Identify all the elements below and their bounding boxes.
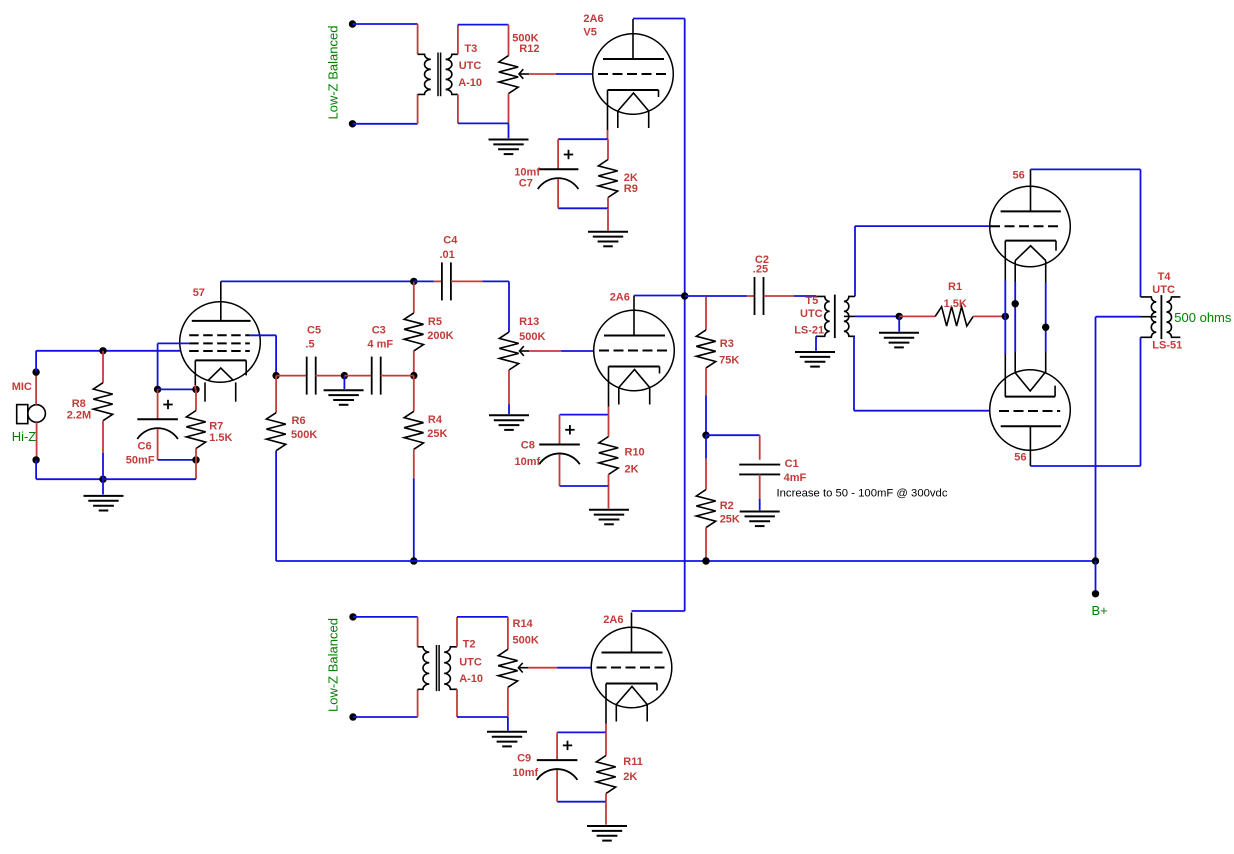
tube V5 2A6	[593, 34, 674, 115]
wire	[102, 453, 104, 479]
wire	[508, 25, 510, 56]
wire	[705, 395, 707, 435]
wire	[417, 94, 419, 123]
wire	[507, 617, 509, 649]
wire	[815, 336, 817, 351]
capacitor C8 10mf electrolytic	[539, 444, 580, 446]
tube 57 pentode	[180, 302, 261, 383]
wire R14 wiper	[529, 667, 558, 669]
transformer T5 (UTC LS-21)	[816, 296, 830, 336]
wire	[855, 225, 990, 227]
ground (below R13)	[489, 414, 529, 416]
capacitor C6 50mF electrolytic	[137, 418, 178, 420]
tube 56 (lower, inverted)	[990, 370, 1071, 451]
wire cathode link	[1004, 241, 1006, 280]
wire T5 to lower 56 grid	[853, 336, 855, 410]
svg-text:500K: 500K	[513, 635, 539, 647]
wire	[35, 460, 37, 479]
wire	[275, 451, 277, 561]
wire	[557, 139, 559, 169]
wire	[556, 732, 558, 760]
tube 56 (upper)	[990, 186, 1071, 267]
junction	[32, 456, 39, 463]
svg-text:LS-51: LS-51	[1152, 339, 1182, 351]
resistor R9 2K	[598, 160, 617, 198]
wire	[557, 801, 606, 803]
wire	[607, 208, 609, 230]
wire plate bus vertical	[684, 19, 686, 612]
wire	[608, 407, 610, 415]
wire mic to grid	[36, 350, 180, 352]
svg-text:57: 57	[193, 287, 205, 299]
wire	[854, 410, 990, 412]
svg-text:R13: R13	[519, 316, 539, 328]
wire	[36, 478, 103, 480]
svg-text:Hi-Z: Hi-Z	[12, 429, 37, 444]
junction	[341, 372, 348, 379]
wire T5 center tap	[855, 315, 899, 317]
svg-text:T5: T5	[805, 295, 818, 307]
tube 2A6 (bottom stage)	[591, 627, 672, 708]
wire	[705, 528, 707, 561]
junction on B+ bus	[1092, 557, 1099, 564]
wire	[561, 350, 594, 352]
svg-text:2K: 2K	[625, 464, 639, 476]
wire	[195, 449, 197, 460]
potentiometer R12 500K	[499, 56, 518, 94]
wire	[457, 616, 508, 618]
wire	[633, 18, 685, 20]
wire	[764, 295, 794, 297]
svg-text:25K: 25K	[720, 514, 740, 526]
svg-text:.5: .5	[305, 339, 314, 351]
wire	[705, 459, 707, 490]
wire	[157, 429, 159, 460]
svg-text:56: 56	[1013, 170, 1025, 182]
svg-text:1.5K: 1.5K	[944, 298, 967, 310]
wire	[194, 385, 196, 389]
wire	[605, 794, 607, 802]
svg-text:R10: R10	[625, 447, 645, 459]
wire	[275, 376, 277, 413]
svg-text:500K: 500K	[519, 331, 545, 343]
wire	[157, 343, 159, 389]
ground (below R9)	[588, 231, 628, 233]
svg-text:T4: T4	[1158, 271, 1172, 283]
wire	[607, 130, 609, 139]
junction on B+ bus	[702, 557, 709, 564]
svg-text:R7: R7	[209, 421, 223, 433]
wire	[413, 376, 415, 412]
svg-text:500 ohms: 500 ohms	[1174, 310, 1232, 325]
wire	[557, 179, 559, 208]
capacitor C1 4mF	[739, 464, 780, 466]
svg-text:200K: 200K	[427, 330, 453, 342]
wire	[414, 280, 434, 282]
wire	[973, 315, 1005, 317]
wire	[898, 316, 900, 331]
svg-text:2A6: 2A6	[610, 291, 630, 303]
wire	[456, 689, 458, 717]
wire	[560, 485, 609, 487]
wire B+ bus	[276, 560, 1095, 562]
svg-text:R14: R14	[513, 618, 534, 630]
wire	[794, 295, 816, 297]
wire	[705, 296, 707, 330]
wire	[685, 295, 706, 297]
junction center tap	[896, 313, 903, 320]
svg-text:10mf: 10mf	[515, 456, 541, 468]
resistor R10 2K	[599, 437, 618, 475]
wire	[508, 404, 510, 414]
wire	[158, 388, 196, 390]
svg-text:R2: R2	[720, 500, 734, 512]
node B+ terminal	[1092, 590, 1099, 597]
wire	[457, 716, 508, 718]
wire	[607, 139, 609, 159]
potentiometer R14 500K	[498, 649, 517, 687]
svg-text:R6: R6	[292, 415, 306, 427]
wire	[557, 731, 606, 733]
resistor R8 2.2M	[93, 383, 112, 421]
wire	[559, 454, 561, 486]
wire	[747, 295, 754, 297]
wire R13 wiper	[530, 350, 562, 352]
wire	[102, 351, 104, 383]
wire	[275, 335, 277, 375]
wire	[103, 478, 196, 480]
wire	[556, 770, 558, 802]
wire	[1140, 337, 1142, 466]
wire	[35, 372, 37, 405]
svg-text:A-10: A-10	[459, 673, 483, 685]
wire	[35, 351, 37, 372]
wire	[458, 24, 509, 26]
svg-text:.01: .01	[440, 249, 455, 261]
ground (below R10)	[589, 509, 629, 511]
wire	[158, 459, 196, 461]
svg-text:R5: R5	[428, 316, 442, 328]
wire heater link (left)	[1014, 261, 1016, 283]
wire	[605, 732, 607, 755]
ground (T5 primary)	[795, 351, 835, 353]
svg-text:C9: C9	[517, 753, 531, 765]
resistor R7 1.5K	[186, 411, 205, 449]
junction decoupling node	[702, 432, 709, 439]
wire	[507, 687, 509, 717]
wire	[508, 94, 510, 124]
wire	[417, 617, 419, 647]
wire	[1095, 317, 1097, 561]
wire	[157, 389, 159, 419]
svg-text:MIC: MIC	[12, 381, 32, 393]
wire	[353, 716, 418, 718]
svg-text:V5: V5	[583, 26, 596, 38]
wire	[344, 375, 371, 377]
wire	[605, 802, 607, 825]
wire	[706, 434, 760, 436]
wire	[559, 415, 561, 445]
wire 57 suppressor to cathode	[158, 342, 190, 344]
resistor R3 75K	[696, 330, 715, 368]
svg-text:75K: 75K	[719, 355, 739, 367]
svg-text:R4: R4	[428, 414, 443, 426]
junction	[32, 368, 39, 375]
junction cathode node	[1002, 313, 1009, 320]
wire	[634, 295, 685, 297]
wire upper 56 plate to T4	[1031, 168, 1141, 170]
junction cathode node	[192, 386, 199, 393]
svg-text:R1: R1	[948, 281, 962, 293]
svg-text:4 mF: 4 mF	[367, 339, 393, 351]
wire	[413, 479, 415, 562]
wire	[195, 460, 197, 479]
svg-text:2.2M: 2.2M	[67, 410, 91, 422]
junction heater	[1042, 324, 1049, 331]
wire 57 screen grid to C5 node	[250, 334, 276, 336]
wire	[413, 449, 415, 478]
wire	[434, 280, 442, 282]
svg-text:C1: C1	[785, 458, 799, 470]
svg-text:R8: R8	[72, 398, 86, 410]
wire	[508, 370, 510, 404]
wire	[1095, 561, 1097, 591]
ground (between C5 and C3)	[324, 389, 364, 391]
ground (below R12)	[489, 139, 529, 141]
wire	[195, 389, 197, 410]
svg-text:R12: R12	[519, 43, 539, 55]
svg-text:C6: C6	[138, 440, 152, 452]
capacitor C9 10mf electrolytic	[537, 759, 578, 761]
wire lower 56 plate to T4	[1030, 465, 1140, 467]
input terminal dot (top channel, lower)	[349, 120, 356, 127]
svg-text:2K: 2K	[624, 172, 638, 184]
svg-text:2A6: 2A6	[583, 13, 603, 25]
wire	[353, 616, 418, 618]
svg-text:C8: C8	[521, 440, 535, 452]
wire	[456, 617, 458, 647]
wire	[36, 422, 38, 460]
wire	[457, 25, 459, 55]
svg-text:2K: 2K	[623, 771, 637, 783]
wire	[315, 375, 344, 377]
input terminal dot (top channel, upper)	[349, 20, 356, 27]
svg-text:T2: T2	[463, 639, 476, 651]
svg-text:C7: C7	[519, 177, 533, 189]
junction	[192, 456, 199, 463]
transformer T3 (UTC A-10)	[418, 54, 431, 94]
wire	[558, 207, 608, 209]
svg-text:.25: .25	[753, 263, 768, 275]
input terminal dot (bottom channel, upper)	[349, 613, 356, 620]
wire	[705, 368, 707, 395]
wire 57 plate to R5/C4 node	[221, 280, 414, 282]
junction	[410, 372, 417, 379]
wire	[458, 122, 509, 124]
wire	[457, 94, 459, 123]
resistor R11 2K	[596, 756, 615, 794]
svg-text:50mF: 50mF	[126, 454, 155, 466]
transformer T4 (UTC LS-51)	[1141, 297, 1157, 337]
resistor R5 200K	[404, 313, 423, 351]
wire	[705, 435, 707, 459]
wire	[632, 610, 685, 612]
wire heater link (right)	[1045, 261, 1047, 283]
svg-text:C4: C4	[443, 235, 458, 247]
wire	[605, 724, 607, 733]
junction	[154, 386, 161, 393]
junction mixing node	[681, 292, 688, 299]
svg-text:UTC: UTC	[459, 60, 482, 72]
wire	[353, 23, 418, 25]
wire	[759, 474, 761, 499]
svg-text:10mf: 10mf	[513, 767, 539, 779]
wire	[557, 667, 592, 669]
wire	[560, 414, 609, 416]
svg-text:UTC: UTC	[800, 308, 823, 320]
wire	[276, 375, 307, 377]
wire	[413, 281, 415, 313]
wire	[508, 281, 510, 332]
capacitor C7 10mf electrolytic	[538, 168, 579, 170]
wire	[508, 123, 510, 138]
svg-text:500K: 500K	[291, 429, 317, 441]
transformer T2 (UTC A-10)	[418, 647, 430, 690]
junction plate node	[410, 278, 417, 285]
svg-text:C5: C5	[307, 324, 321, 336]
svg-text:T3: T3	[464, 43, 477, 55]
junction heater	[1012, 300, 1019, 307]
svg-text:56: 56	[1014, 451, 1026, 463]
wire	[417, 24, 419, 54]
wire	[607, 198, 609, 209]
ground (center tap)	[879, 332, 919, 334]
wire	[102, 479, 104, 494]
ground (below R14)	[487, 731, 527, 733]
wire	[507, 717, 509, 731]
svg-text:25K: 25K	[427, 428, 447, 440]
svg-text:2A6: 2A6	[603, 614, 623, 626]
ground (input common)	[84, 495, 124, 497]
wire	[343, 376, 345, 389]
wire	[353, 123, 418, 125]
resistor R2 25K	[696, 490, 715, 528]
svg-text:4mF: 4mF	[784, 472, 807, 484]
svg-text:LS-21: LS-21	[794, 324, 824, 336]
tube 2A6 (second stage)	[594, 310, 675, 391]
wire T4 center tap to B+ bus	[1096, 316, 1141, 318]
wire	[482, 280, 509, 282]
svg-text:R3: R3	[720, 338, 734, 350]
svg-text:UTC: UTC	[1152, 284, 1175, 296]
svg-text:Low-Z Balanced: Low-Z Balanced	[326, 618, 341, 712]
wire	[451, 280, 482, 282]
wire	[608, 475, 610, 487]
wire	[1140, 169, 1142, 297]
ground (below R11)	[587, 825, 627, 827]
wire	[102, 421, 104, 453]
svg-text:R9: R9	[624, 183, 638, 195]
wire	[759, 435, 761, 460]
wire	[899, 315, 935, 317]
wire	[608, 415, 610, 437]
svg-text:1.5K: 1.5K	[209, 432, 232, 444]
svg-text:C3: C3	[372, 324, 386, 336]
junction on B+ bus	[410, 557, 417, 564]
svg-text:Increase to 50 - 100mF @ 300vd: Increase to 50 - 100mF @ 300vdc	[777, 487, 948, 499]
potentiometer R13 500K	[499, 332, 518, 370]
wire	[556, 73, 594, 75]
svg-text:B+: B+	[1092, 603, 1108, 618]
svg-text:R11: R11	[623, 756, 643, 768]
wire T5 to upper 56 grid	[854, 226, 856, 297]
svg-text:A-10: A-10	[458, 77, 482, 89]
wire	[413, 351, 415, 376]
svg-text:Low-Z Balanced: Low-Z Balanced	[326, 26, 341, 120]
wire	[417, 689, 419, 717]
wire	[558, 138, 608, 140]
wire R12 wiper	[529, 73, 556, 75]
input terminal dot (bottom channel, lower)	[349, 713, 356, 720]
svg-text:UTC: UTC	[459, 656, 482, 668]
junction screen node	[272, 372, 279, 379]
wire	[381, 375, 414, 377]
microphone symbol MIC Hi-Z	[17, 405, 28, 424]
wire	[608, 486, 610, 509]
junction	[99, 476, 106, 483]
wire	[759, 499, 761, 510]
wire	[706, 295, 747, 297]
junction	[99, 347, 106, 354]
ground (below C1)	[740, 511, 780, 513]
